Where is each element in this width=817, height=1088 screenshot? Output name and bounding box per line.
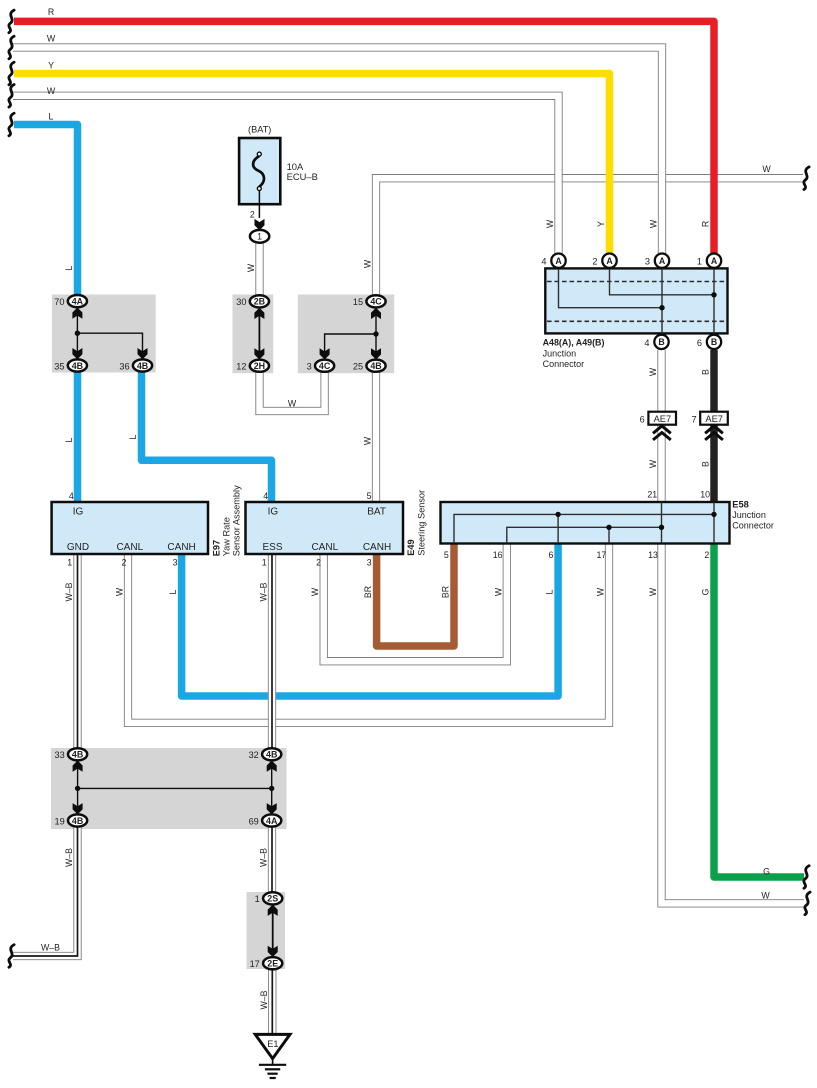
wire W connector 4B pin 25 to steering sensor BAT <box>372 372 380 502</box>
E58 node dot pin 10/2 junction <box>711 512 716 517</box>
A48 junction node dot at 1A/2A <box>711 292 716 297</box>
wire W E58 pin 13 to bottom right page break <box>662 544 805 904</box>
junction connector E58 box <box>441 502 730 544</box>
svg-text:7: 7 <box>691 415 696 425</box>
junction pin circle 3 A <box>645 254 669 268</box>
connector pass-through shield box 4A/4B (pins 70,35,36) <box>52 295 156 373</box>
svg-text:1: 1 <box>257 232 262 242</box>
svg-text:W–B: W–B <box>259 990 269 1009</box>
svg-text:L: L <box>64 437 74 442</box>
svg-text:BAT: BAT <box>367 507 386 518</box>
fuse 10A ECU-B box <box>239 138 280 204</box>
svg-text:W–B: W–B <box>259 848 269 867</box>
wire W-B connector 4B pin 19 to left page break <box>13 828 78 957</box>
svg-text:(BAT): (BAT) <box>248 124 271 134</box>
E58 node dot pin 21/13 junction <box>659 525 664 530</box>
svg-text:W: W <box>47 33 56 43</box>
svg-text:3: 3 <box>307 362 312 372</box>
svg-text:Junction: Junction <box>543 349 577 359</box>
svg-text:4C: 4C <box>370 297 382 307</box>
svg-text:W: W <box>648 459 658 468</box>
ground symbol E1 <box>255 1034 290 1078</box>
wire L connector 4B pin 35 to yaw-rate sensor IG <box>74 372 82 502</box>
svg-text:4C: 4C <box>319 361 331 371</box>
svg-text:17: 17 <box>597 550 607 560</box>
junction connector A48(A)/A49(B) box <box>545 268 727 333</box>
junction pin circle 4 B <box>644 335 668 349</box>
wire L connector 4B pin 36 to steering sensor IG <box>142 372 272 502</box>
svg-text:E58: E58 <box>732 500 749 510</box>
wire W connector 2H pin 12 to connector 4C pin 3 <box>260 372 325 411</box>
svg-text:R: R <box>701 221 711 227</box>
wire W-B steering ESS to connector 4B pin 32 <box>268 555 276 748</box>
svg-text:4: 4 <box>541 257 546 267</box>
svg-text:W: W <box>648 367 658 376</box>
svg-text:W: W <box>761 890 770 900</box>
wire W junction 4B to AE7 pin 6 to E58 pin 21 <box>657 350 665 502</box>
svg-text:4A: 4A <box>266 816 278 826</box>
svg-text:BR: BR <box>441 586 451 598</box>
wire BR steering CANH to E58 pin 5 <box>377 544 454 647</box>
svg-text:BR: BR <box>363 586 373 598</box>
A48 internal dashed row line lower <box>547 320 726 322</box>
svg-text:2: 2 <box>704 550 709 560</box>
shield link 1/2S to 17/2E <box>268 905 278 957</box>
svg-text:W: W <box>246 263 256 272</box>
svg-text:2: 2 <box>250 210 255 220</box>
wire G E58 pin 2 to right page break <box>714 544 804 878</box>
svg-text:1: 1 <box>697 257 702 267</box>
svg-text:6: 6 <box>640 415 645 425</box>
svg-text:W: W <box>649 219 659 228</box>
page break wire L left <box>9 113 14 136</box>
svg-text:W: W <box>762 164 771 174</box>
page break wire R left <box>9 10 14 33</box>
wire W from fuse node to connector 4C pin 15 and right page break <box>376 178 803 295</box>
connector pass-through shield box 4C/4C/4B (pins 15,3,25) <box>298 295 394 374</box>
page break wire W bus2 left <box>9 36 14 59</box>
svg-text:IG: IG <box>268 507 279 518</box>
svg-text:35: 35 <box>54 361 64 371</box>
svg-text:32: 32 <box>249 750 259 760</box>
connector oval 4A pin 69 <box>249 814 282 826</box>
E58 node dot pin 17 junction <box>606 525 611 530</box>
connector oval 4B pin 19 <box>54 814 87 826</box>
svg-text:Y: Y <box>596 221 606 227</box>
svg-text:ECU–B: ECU–B <box>287 171 318 182</box>
svg-text:19: 19 <box>54 816 64 826</box>
svg-text:W: W <box>288 398 297 408</box>
svg-text:E97: E97 <box>211 540 221 556</box>
page break wire W bottom right <box>805 892 810 915</box>
svg-text:E49: E49 <box>406 539 416 555</box>
svg-text:R: R <box>48 7 54 17</box>
shield link 33/4B,32/4B to 19/4B,69/4A <box>73 761 277 815</box>
svg-text:A: A <box>555 256 562 266</box>
svg-text:W: W <box>47 86 56 96</box>
svg-text:5: 5 <box>444 550 449 560</box>
A48 junction node dot at 3A/4A <box>659 305 664 310</box>
svg-text:4A: 4A <box>72 296 84 306</box>
wire B junction 6B to AE7 pin 7 to E58 pin 10 <box>710 350 718 502</box>
junction pin circle 2 A <box>592 254 616 268</box>
svg-text:25: 25 <box>353 362 363 372</box>
E58 internal through wire pins 10-2 <box>713 502 715 543</box>
in-line connector AE7 pin 6 box <box>640 412 676 425</box>
wire L yaw-rate CANH to E58 pin 6 <box>182 544 558 697</box>
svg-text:CANL: CANL <box>311 542 338 553</box>
connector oval 4B pin 32 <box>249 748 282 760</box>
svg-text:W: W <box>363 259 373 268</box>
A48 internal wire 2A to node <box>610 268 715 294</box>
shield chevrons below AE7 pin 6 <box>653 426 671 440</box>
shield link 70/4A to 35/4B and 36/4B <box>72 308 147 360</box>
svg-text:L: L <box>545 589 555 594</box>
svg-text:W: W <box>310 587 320 596</box>
steering sensor E49 box <box>246 502 404 554</box>
connector oval 4B pin 35 <box>54 359 87 371</box>
E58 internal bus lower (pins 16-17-21-13) <box>507 527 662 543</box>
E58 internal stub pin 6 <box>557 514 559 543</box>
E58 internal bus upper (pins 5-6-10-2) <box>454 514 714 543</box>
svg-text:2B: 2B <box>254 297 265 307</box>
page break wire Y left <box>9 62 14 85</box>
svg-text:CANH: CANH <box>363 542 391 553</box>
connector oval 4B pin 25 <box>353 360 386 372</box>
svg-text:E1: E1 <box>267 1039 278 1049</box>
svg-text:1: 1 <box>67 557 72 567</box>
connector oval 4C pin 3 <box>307 360 335 372</box>
svg-text:W–B: W–B <box>64 848 74 867</box>
yaw rate sensor assembly E97 box <box>52 502 208 554</box>
wire Y bus to junction connector pin 2A <box>14 74 610 254</box>
svg-text:3: 3 <box>645 257 650 267</box>
shield chevrons below AE7 pin 7 <box>705 426 723 440</box>
page break wire G right <box>804 866 809 889</box>
svg-text:W–B: W–B <box>64 582 74 601</box>
svg-text:Steering Sensor: Steering Sensor <box>416 490 426 556</box>
svg-text:4B: 4B <box>72 361 83 371</box>
junction pin circle 4 A <box>541 254 565 268</box>
svg-text:70: 70 <box>54 297 64 307</box>
svg-text:A: A <box>711 256 718 266</box>
svg-text:4B: 4B <box>266 750 277 760</box>
svg-text:36: 36 <box>119 361 129 371</box>
svg-text:Junction: Junction <box>732 510 766 520</box>
svg-text:30: 30 <box>236 297 246 307</box>
wire W horizontal bus 4 to junction connector pin 4A <box>13 96 559 254</box>
svg-text:AE7: AE7 <box>654 414 672 424</box>
svg-text:W: W <box>596 587 606 596</box>
wire W-B yaw-rate GND to connector 4B pin 33 <box>73 555 81 748</box>
svg-text:15: 15 <box>353 297 363 307</box>
wire W yaw-rate CANL to E58 pin 17 <box>128 544 609 723</box>
wire W fuse output to connector 2B pin 30 <box>255 243 263 296</box>
wire W steering CANL to E58 pin 16 <box>324 544 507 662</box>
svg-text:A: A <box>606 256 613 266</box>
svg-text:Sensor Assembly: Sensor Assembly <box>231 485 241 556</box>
svg-text:Connector: Connector <box>732 520 774 530</box>
junction pin circle 1 A <box>697 254 721 268</box>
node 1 oval <box>250 230 269 243</box>
page break wire W-B bottom left <box>9 945 14 968</box>
connector oval 4B pin 33 <box>54 748 87 760</box>
svg-text:W: W <box>493 587 503 596</box>
svg-text:6: 6 <box>548 550 553 560</box>
svg-text:IG: IG <box>73 507 84 518</box>
svg-text:B: B <box>701 369 711 375</box>
svg-text:5: 5 <box>367 491 372 501</box>
wire L IG feed from page break to connector 4A pin 70 <box>14 125 78 296</box>
svg-text:3: 3 <box>173 557 178 567</box>
svg-text:4B: 4B <box>370 361 381 371</box>
svg-text:CANL: CANL <box>116 542 143 553</box>
fuse element symbol <box>253 152 264 190</box>
svg-text:W–B: W–B <box>259 582 269 601</box>
E58 internal through wire pins 21-13 <box>661 502 663 543</box>
svg-text:2: 2 <box>121 557 126 567</box>
A48 internal wire 4A to node <box>559 268 663 307</box>
svg-text:ESS: ESS <box>262 542 282 553</box>
svg-text:2S: 2S <box>267 894 278 904</box>
junction pin circle 6 B <box>697 335 721 349</box>
arrow into node 1 <box>255 219 265 230</box>
svg-text:1: 1 <box>262 557 267 567</box>
wire R battery bus to junction connector pin 1A <box>14 21 714 253</box>
fuse output lead pin 2 <box>258 191 260 219</box>
shield link 15/4C to 3/4C and 25/4B <box>320 308 381 360</box>
connector oval 2S pin 1 <box>255 892 283 904</box>
svg-text:Y: Y <box>48 60 54 70</box>
svg-text:2: 2 <box>592 257 597 267</box>
svg-text:2H: 2H <box>254 361 265 371</box>
svg-text:G: G <box>701 588 711 595</box>
svg-text:GND: GND <box>67 542 89 553</box>
page break wire W right <box>804 167 809 190</box>
connector pass-through shield box 4B/4B/4A (pins 33,32,19,69) <box>51 748 287 829</box>
wire W-B connector 4A pin 69 to connector 2S pin 1 <box>268 828 276 893</box>
svg-text:L: L <box>49 111 54 121</box>
svg-text:L: L <box>128 434 138 439</box>
connector oval 4B pin 36 <box>119 359 152 371</box>
svg-text:CANH: CANH <box>167 542 195 553</box>
svg-text:Yaw Rate: Yaw Rate <box>221 517 231 556</box>
svg-text:W: W <box>545 219 555 228</box>
connector pass-through shield box 2S/2E (pins 1,17) <box>247 892 286 969</box>
svg-text:17: 17 <box>250 959 260 969</box>
connector oval 4A pin 70 <box>54 295 87 307</box>
svg-text:L: L <box>168 589 178 594</box>
svg-text:12: 12 <box>236 362 246 372</box>
in-line connector AE7 pin 7 box <box>691 412 727 425</box>
connector oval 4C pin 15 <box>353 295 386 307</box>
svg-text:W: W <box>363 436 373 445</box>
A48 internal wire 3A to 4B <box>661 268 663 333</box>
svg-text:L: L <box>64 265 74 270</box>
svg-text:G: G <box>763 866 770 876</box>
svg-text:4: 4 <box>644 338 649 348</box>
connector oval 2H pin 12 <box>236 360 269 372</box>
connector pass-through shield box 2B/2H (pins 30,12) <box>233 295 274 374</box>
wire W-B connector 2E pin 17 to ground E1 <box>268 969 276 1033</box>
svg-text:3: 3 <box>367 557 372 567</box>
shield link 30/2B to 12/2H <box>254 308 264 360</box>
wire W horizontal bus 2 to junction connector pin 3A <box>13 48 662 254</box>
svg-text:4B: 4B <box>72 750 83 760</box>
svg-text:4B: 4B <box>137 361 148 371</box>
svg-text:16: 16 <box>493 550 503 560</box>
svg-text:W: W <box>115 587 125 596</box>
page break wire W bus4 left <box>9 85 14 108</box>
svg-text:1: 1 <box>255 894 260 904</box>
svg-text:4: 4 <box>69 491 74 501</box>
svg-text:2E: 2E <box>267 959 278 969</box>
svg-text:33: 33 <box>54 750 64 760</box>
svg-text:B: B <box>711 337 717 347</box>
svg-text:4: 4 <box>263 491 268 501</box>
A48 internal wire 1A to 6B <box>713 268 715 333</box>
svg-text:21: 21 <box>647 489 657 499</box>
svg-text:W: W <box>648 587 658 596</box>
svg-text:Connector: Connector <box>543 359 585 369</box>
connector oval 2B pin 30 <box>236 295 269 307</box>
A48 internal dashed row line upper <box>547 281 726 283</box>
svg-text:10: 10 <box>700 489 710 499</box>
svg-text:2: 2 <box>316 557 321 567</box>
svg-text:69: 69 <box>249 816 259 826</box>
svg-text:A48(A), A49(B): A48(A), A49(B) <box>543 338 605 348</box>
svg-text:13: 13 <box>648 550 658 560</box>
svg-text:4B: 4B <box>72 816 83 826</box>
svg-text:W–B: W–B <box>41 942 60 952</box>
svg-text:B: B <box>701 461 711 467</box>
E58 internal stub pin 17 <box>608 527 610 543</box>
E58 node dot pin 6 junction <box>555 512 560 517</box>
svg-text:AE7: AE7 <box>705 414 723 424</box>
svg-text:A: A <box>659 256 666 266</box>
svg-text:6: 6 <box>697 338 702 348</box>
svg-text:B: B <box>658 337 664 347</box>
connector oval 2E pin 17 <box>250 957 283 969</box>
